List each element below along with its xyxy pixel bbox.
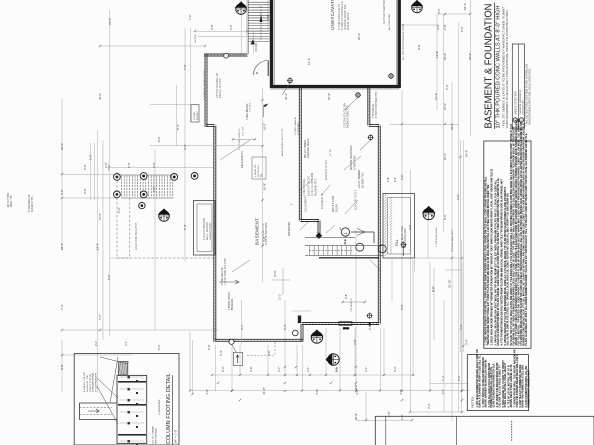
svg-text:BASEMENT & FOUNDATION: BASEMENT & FOUNDATION	[484, 4, 495, 129]
svg-text:9'-6": 9'-6"	[432, 286, 436, 292]
svg-text:12'-4": 12'-4"	[434, 93, 438, 100]
svg-text:7'-6" M.O.: 7'-6" M.O.	[250, 102, 252, 112]
svg-text:6'-2": 6'-2"	[152, 186, 156, 192]
svg-text:14'-8": 14'-8"	[435, 51, 439, 58]
svg-text:3'-4": 3'-4"	[459, 324, 463, 330]
svg-text:2 ROWS CROSS: 2 ROWS CROSS	[229, 292, 231, 310]
svg-text:SHOP DRAWINGS TO ARCHITECT FOR: SHOP DRAWINGS TO ARCHITECT FOR APPROVAL …	[505, 11, 509, 129]
svg-text:2'-0": 2'-0"	[83, 188, 87, 194]
svg-text:TYP DROP 8": TYP DROP 8"	[351, 298, 353, 312]
svg-text:TYP FOR ALL: TYP FOR ALL	[372, 103, 375, 118]
svg-text:3'-1": 3'-1"	[306, 366, 310, 372]
svg-text:9'-8": 9'-8"	[60, 364, 64, 370]
svg-text:18'-4": 18'-4"	[465, 150, 469, 157]
svg-text:20'-8": 20'-8"	[354, 413, 358, 420]
svg-text:4x4 PRES TREAT WOOD POST: 4x4 PRES TREAT WOOD POST	[383, 0, 386, 24]
svg-text:3/4" = 1'-0": 3/4" = 1'-0"	[174, 429, 178, 444]
svg-text:3'-6": 3'-6"	[229, 24, 233, 30]
svg-text:STOOP ABV: STOOP ABV	[297, 122, 300, 135]
svg-text:2-2x10 TRIMMER: 2-2x10 TRIMMER	[359, 169, 361, 188]
svg-text:6'-3": 6'-3"	[393, 366, 397, 372]
svg-text:FILL: FILL	[395, 239, 399, 246]
svg-text:2x10 FJ AT 16" O.C.: 2x10 FJ AT 16" O.C.	[308, 175, 311, 196]
svg-text:5'-4": 5'-4"	[219, 350, 223, 356]
svg-text:3'-2": 3'-2"	[183, 144, 187, 150]
svg-text:24"x24"x12" THK: 24"x24"x12" THK	[87, 375, 89, 392]
svg-text:10'-8": 10'-8"	[263, 183, 267, 190]
svg-text:2'-0": 2'-0"	[127, 162, 131, 168]
svg-text:2'-3": 2'-3"	[457, 375, 461, 381]
svg-text:2'-8": 2'-8"	[266, 14, 270, 20]
svg-text:DETECTOR: DETECTOR	[523, 100, 525, 114]
svg-text:8" FND WALL W/: 8" FND WALL W/	[28, 194, 31, 212]
svg-text:24x24x12 CONC FTG: 24x24x12 CONC FTG	[348, 105, 350, 128]
svg-text:3'-0": 3'-0"	[436, 24, 440, 30]
svg-text:6'-0": 6'-0"	[460, 26, 464, 32]
svg-text:DBL JST UNDER: DBL JST UNDER	[305, 140, 307, 158]
svg-text:11'-2": 11'-2"	[278, 294, 282, 300]
svg-text:P. CONC WALL AT: P. CONC WALL AT	[294, 116, 297, 135]
svg-text:PROJ. TYP: PROJ. TYP	[11, 195, 13, 207]
svg-text:4'-8": 4'-8"	[267, 350, 271, 356]
svg-text:8'-0": 8'-0"	[443, 214, 447, 220]
svg-text:PROVIDE SOLID BLKG: PROVIDE SOLID BLKG	[351, 145, 353, 170]
svg-text:2'-8": 2'-8"	[386, 177, 390, 182]
svg-text:9'-0": 9'-0"	[240, 324, 244, 330]
svg-text:PARALLEL WALLS: PARALLEL WALLS	[307, 138, 310, 158]
svg-text:2'-0": 2'-0"	[94, 341, 98, 346]
svg-text:3'-0": 3'-0"	[408, 224, 412, 230]
svg-text:5'-0": 5'-0"	[207, 344, 211, 350]
svg-text:1: 1	[343, 232, 348, 235]
svg-text:2x6 SILL PL (TYP): 2x6 SILL PL (TYP)	[219, 78, 222, 98]
svg-text:3 1/2" DIA STL COL ON: 3 1/2" DIA STL COL ON	[344, 103, 347, 128]
svg-text:2x10 CJ AT 16" O.C.: 2x10 CJ AT 16" O.C.	[355, 189, 358, 210]
svg-text:PROVIDE WALL VENT: PROVIDE WALL VENT	[451, 229, 454, 252]
svg-text:CONC FTG W/ (3): CONC FTG W/ (3)	[90, 374, 92, 392]
svg-text:34'-0": 34'-0"	[450, 123, 454, 130]
svg-text:6'-2": 6'-2"	[60, 189, 64, 195]
svg-text:#4 REBAR EA WAY: #4 REBAR EA WAY	[92, 372, 95, 392]
svg-text:COLUMN FOOTING DETAIL: COLUMN FOOTING DETAIL	[166, 373, 172, 444]
svg-text:3 1/2 x 11 1/4 PSL BM: 3 1/2 x 11 1/4 PSL BM	[312, 173, 314, 196]
svg-text:3'-4": 3'-4"	[465, 339, 469, 345]
svg-text:9'-8": 9'-8"	[400, 304, 404, 310]
svg-text:VERT (4) REQD: VERT (4) REQD	[156, 428, 158, 444]
svg-text:2'-3": 2'-3"	[441, 389, 445, 395]
svg-text:10'-8": 10'-8"	[273, 270, 277, 277]
svg-text:IN ACCORDANCE WITH THE LOCAL C: IN ACCORDANCE WITH THE LOCAL CODE REQ	[529, 69, 532, 125]
svg-text:16" OC: 16" OC	[330, 148, 332, 156]
svg-text:2-2x10 HDR AT: 2-2x10 HDR AT	[305, 195, 308, 212]
svg-text:5'-4": 5'-4"	[183, 224, 187, 230]
svg-text:10'-8": 10'-8"	[327, 93, 331, 100]
svg-text:9'-8": 9'-8"	[252, 39, 256, 45]
svg-text:#4 x 12" L REBAR: #4 x 12" L REBAR	[152, 426, 155, 444]
svg-text:3'-0": 3'-0"	[400, 174, 404, 180]
svg-text:16'-0": 16'-0"	[443, 153, 447, 160]
svg-text:31'-0": 31'-0"	[60, 143, 64, 150]
svg-text:2'-8": 2'-8"	[443, 24, 447, 30]
svg-text:9'-8": 9'-8"	[417, 44, 421, 50]
svg-text:5'-4": 5'-4"	[176, 124, 180, 130]
svg-text:3'-4": 3'-4"	[263, 236, 267, 242]
svg-text:STL BM: STL BM	[194, 112, 196, 120]
svg-text:NOTES:: NOTES:	[471, 396, 475, 407]
svg-text:2'-8": 2'-8"	[355, 389, 359, 395]
svg-text:5'-8": 5'-8"	[205, 389, 209, 395]
svg-text:6'-0": 6'-0"	[107, 274, 111, 280]
svg-text:18'-4": 18'-4"	[463, 3, 467, 10]
svg-text:LVL FLUSH: LVL FLUSH	[258, 165, 260, 177]
svg-text:5'-0": 5'-0"	[157, 344, 161, 350]
svg-text:12'-6": 12'-6"	[96, 243, 100, 250]
svg-text:b: b	[254, 71, 259, 74]
svg-text:2 THK RIGID INSUL: 2 THK RIGID INSUL	[436, 226, 438, 247]
svg-text:2'-0": 2'-0"	[83, 164, 87, 170]
svg-text:12'-6": 12'-6"	[98, 213, 102, 220]
svg-text:POCKET: POCKET	[197, 110, 199, 120]
svg-text:20'-4": 20'-4"	[357, 33, 361, 40]
svg-text:8" FND WALL W/: 8" FND WALL W/	[221, 267, 224, 285]
svg-text:FLUSH W/ JSTS: FLUSH W/ JSTS	[316, 178, 318, 196]
svg-text:3" REINFORCE: 3" REINFORCE	[159, 399, 161, 415]
svg-text:31'-10": 31'-10"	[448, 279, 452, 288]
svg-text:SILL SLAB FLOOR PLATE STEEL O.: SILL SLAB FLOOR PLATE STEEL O.C. GRAVEL …	[507, 193, 510, 345]
svg-text:BASEMENT: BASEMENT	[255, 218, 260, 245]
svg-text:8": 8"	[291, 203, 293, 205]
svg-text:AT MID SPAN: AT MID SPAN	[354, 155, 357, 170]
svg-text:2'-0": 2'-0"	[124, 341, 128, 346]
svg-text:18'-4": 18'-4"	[60, 243, 64, 250]
svg-text:5'-8": 5'-8"	[315, 389, 319, 395]
svg-text:2'-7": 2'-7"	[277, 366, 281, 372]
svg-text:1'-6" TYP: 1'-6" TYP	[243, 126, 245, 136]
svg-text:2. FIELD HIGH ANCHOR PROVIDE I: 2. FIELD HIGH ANCHOR PROVIDE INT PERIMET…	[491, 169, 494, 346]
svg-text:1'-8"x8" CONC FTG (TYP): 1'-8"x8" CONC FTG (TYP)	[225, 258, 227, 285]
svg-text:EQ 3'-6" FDN: EQ 3'-6" FDN	[8, 193, 10, 207]
svg-text:3'-0": 3'-0"	[456, 194, 460, 200]
svg-text:16'-0": 16'-0"	[443, 103, 447, 110]
svg-text:HB: HB	[340, 226, 342, 230]
svg-text:TREATED GRADE VERIFY STEEL EXT: TREATED GRADE VERIFY STEEL EXT CONST PLA…	[487, 184, 490, 345]
svg-text:3'-0": 3'-0"	[437, 8, 441, 14]
svg-text:16'-0": 16'-0"	[263, 123, 267, 130]
svg-text:CARBON MONOXIDE: CARBON MONOXIDE	[519, 89, 522, 115]
svg-text:ALL FOR ROAD: ALL FOR ROAD	[388, 14, 391, 30]
svg-text:31'-0": 31'-0"	[108, 18, 112, 25]
svg-text:18'-4": 18'-4"	[468, 53, 472, 60]
svg-text:2x4 KEY (TYP): 2x4 KEY (TYP)	[32, 196, 34, 212]
svg-text:7'-6": 7'-6"	[183, 64, 187, 70]
svg-text:2'-0": 2'-0"	[152, 162, 156, 168]
svg-text:2'-0": 2'-0"	[117, 207, 121, 213]
svg-text:FLUSH: FLUSH	[337, 204, 339, 212]
svg-text:4" POST FOOTING (TYP): 4" POST FOOTING (TYP)	[376, 91, 378, 118]
svg-text:5'-0": 5'-0"	[445, 84, 449, 90]
svg-text:1 3/4x11 7/8: 1 3/4x11 7/8	[255, 164, 257, 177]
svg-text:LADDER REQD: LADDER REQD	[209, 222, 212, 240]
svg-text:6'-8": 6'-8"	[399, 389, 403, 395]
svg-text:1'-3": 1'-3"	[441, 375, 445, 381]
svg-text:21'-8": 21'-8"	[262, 387, 266, 394]
svg-text:PLATE SLAB INSUL INT BOLT ALL: PLATE SLAB INSUL INT BOLT ALL DRAIN PERI…	[525, 133, 528, 345]
svg-text:2'-8": 2'-8"	[368, 324, 372, 330]
svg-text:M.E: M.E	[343, 239, 347, 244]
svg-text:SMOKE DETECTOR: SMOKE DETECTOR	[516, 91, 518, 114]
svg-text:5'-4": 5'-4"	[283, 324, 287, 330]
svg-text:EA SIDE (TYP): EA SIDE (TYP)	[362, 172, 365, 188]
svg-text:31'-0": 31'-0"	[98, 93, 102, 100]
svg-text:18'-4": 18'-4"	[443, 53, 447, 60]
svg-text:4" DIA STL COL ON: 4" DIA STL COL ON	[83, 372, 86, 392]
svg-text:2'-0": 2'-0"	[89, 154, 93, 160]
svg-text:2'-8": 2'-8"	[210, 24, 214, 30]
svg-text:7'-4": 7'-4"	[60, 304, 64, 310]
svg-text:W.W.M. REINF: W.W.M. REINF	[346, 12, 350, 30]
svg-text:2'-4": 2'-4"	[393, 177, 397, 182]
svg-text:2x6 FDN: 2x6 FDN	[195, 34, 197, 43]
svg-text:2'-8": 2'-8"	[335, 366, 339, 372]
svg-text:2'-0": 2'-0"	[104, 162, 108, 168]
svg-text:PERIMETER EXT GRAVEL FIN FT: PERIMETER EXT GRAVEL FIN FT	[527, 368, 530, 407]
svg-text:7'-2": 7'-2"	[98, 314, 102, 320]
svg-text:1 3/4x11 7/8 LVL: 1 3/4x11 7/8 LVL	[304, 178, 306, 196]
svg-text:2x10 FJ AT 16" O.C.: 2x10 FJ AT 16" O.C.	[325, 159, 328, 180]
svg-text:3'-4": 3'-4"	[427, 403, 431, 409]
svg-text:2'-3": 2'-3"	[221, 366, 225, 372]
svg-text:4" CONC SLAB ON GRADE: 4" CONC SLAB ON GRADE	[204, 70, 207, 100]
svg-text:2'-8": 2'-8"	[400, 414, 404, 420]
svg-text:2x10 WJ AT 16": 2x10 WJ AT 16"	[321, 193, 324, 209]
svg-text:HIGH COL FOUNDATION BRG INT PL: HIGH COL FOUNDATION BRG INT PLATE GRAVEL…	[497, 177, 500, 345]
svg-text:7'-6": 7'-6"	[188, 14, 192, 20]
svg-text:ANCHOR BOLT AT 6'-0" OC: ANCHOR BOLT AT 6'-0" OC	[281, 128, 284, 156]
svg-text:12x12 CONC PIER (TYP): 12x12 CONC PIER (TYP)	[135, 222, 138, 250]
svg-text:3'-1": 3'-1"	[364, 366, 368, 372]
svg-text:W8x15 STL BM: W8x15 STL BM	[333, 196, 335, 212]
svg-text:UNEXCAVATED: UNEXCAVATED	[330, 0, 335, 30]
svg-text:BRIDGING: BRIDGING	[232, 298, 234, 310]
svg-text:4. FTG FOUNDATION BELOW BOLT N: 4. FTG FOUNDATION BELOW BOLT NOTED REINF…	[500, 179, 503, 346]
svg-text:ALL FOR ROAD GARAGE DOOR: ALL FOR ROAD GARAGE DOOR	[402, 24, 405, 60]
svg-text:20'-4": 20'-4"	[284, 93, 288, 100]
svg-text:3" CLR FROM BTM: 3" CLR FROM BTM	[96, 373, 98, 392]
svg-text:FIELD LENGTH: FIELD LENGTH	[242, 151, 244, 168]
svg-text:3'-8": 3'-8"	[249, 366, 253, 372]
svg-text:9'-8": 9'-8"	[344, 294, 348, 299]
svg-text:UNFINISHED: UNFINISHED	[289, 222, 291, 236]
svg-text:12'-4": 12'-4"	[307, 58, 311, 65]
svg-text:8'-0": 8'-0"	[157, 136, 161, 142]
